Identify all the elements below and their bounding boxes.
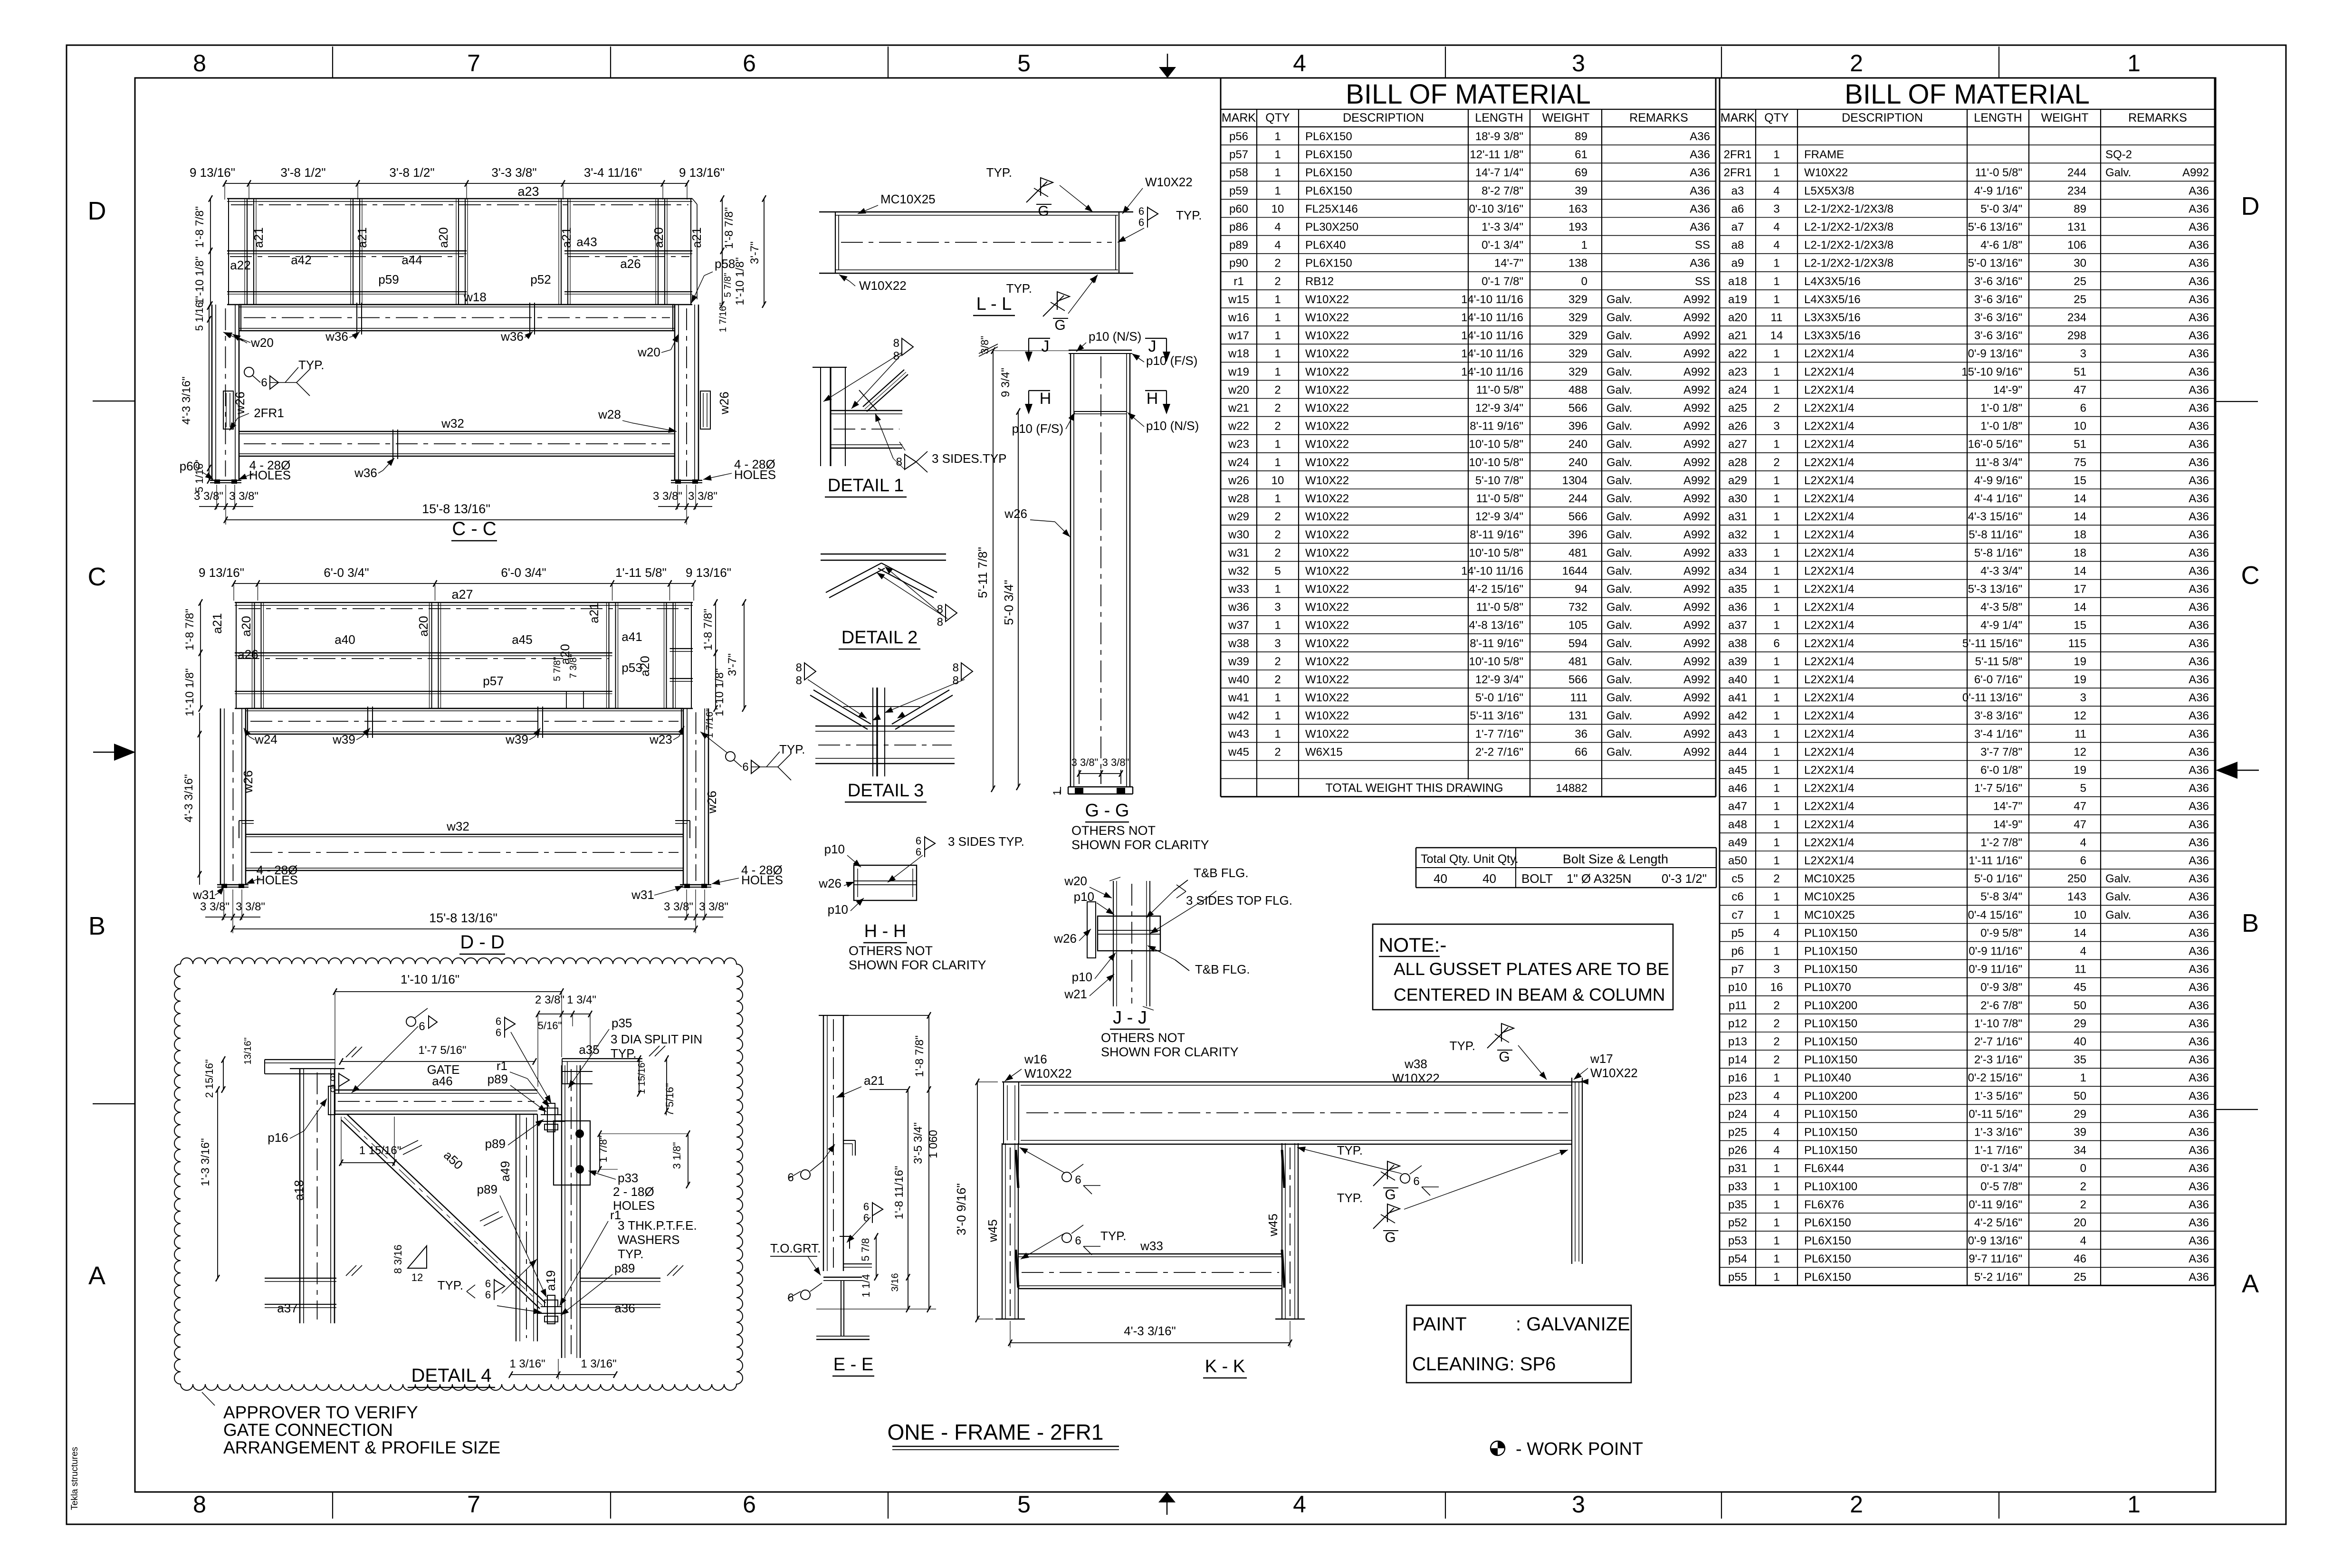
svg-text:6: 6 [330,1071,335,1083]
svg-text:1: 1 [1773,1252,1779,1265]
svg-text:2 - 18Ø: 2 - 18Ø [613,1185,654,1199]
svg-text:TYP.: TYP. [1100,1229,1126,1243]
svg-text:G - G: G - G [1085,801,1129,821]
G-G column body [1070,354,1071,787]
svg-text:Galv.: Galv. [1606,601,1632,614]
svg-text:1: 1 [1274,709,1281,722]
C-C weld symbol typ [244,367,254,377]
svg-text:6: 6 [742,761,748,774]
svg-text:p35: p35 [1728,1198,1747,1211]
svg-text:APPROVER TO VERIFY: APPROVER TO VERIFY [223,1403,418,1422]
svg-text:40: 40 [2074,1035,2086,1048]
svg-text:9'-7 11/16": 9'-7 11/16" [1969,1252,2022,1265]
svg-text:3 3/8": 3 3/8" [194,490,223,503]
svg-text:a30: a30 [1728,492,1747,505]
svg-text:W10X22: W10X22 [1305,311,1349,324]
svg-text:1: 1 [1773,673,1779,686]
svg-text:REMARKS: REMARKS [2128,111,2187,124]
svg-text:w20: w20 [1228,383,1249,396]
svg-text:1 7/16": 1 7/16" [718,303,728,333]
svg-text:A36: A36 [2189,184,2209,197]
svg-text:a33: a33 [1728,546,1747,559]
svg-text:1: 1 [1773,383,1779,396]
svg-text:L2X2X1/4: L2X2X1/4 [1804,546,1854,559]
svg-text:3'-7": 3'-7" [748,241,761,264]
svg-text:L2X2X1/4: L2X2X1/4 [1804,438,1854,451]
svg-text:D: D [2241,192,2260,220]
svg-text:OTHERS NOT: OTHERS NOT [849,944,933,958]
svg-text:H: H [1040,390,1052,408]
svg-text:2 15/16": 2 15/16" [203,1059,215,1098]
svg-text:a21: a21 [864,1073,884,1088]
svg-text:a20: a20 [1728,311,1747,324]
svg-text:p35: p35 [612,1016,632,1030]
svg-text:A992: A992 [1683,727,1710,740]
svg-text:6: 6 [1075,1174,1081,1186]
svg-text:14'-9": 14'-9" [1993,383,2022,396]
svg-text:QTY: QTY [1265,111,1290,124]
svg-text:14: 14 [2074,601,2086,614]
svg-text:p52: p52 [1728,1216,1747,1229]
svg-text:A36: A36 [2189,764,2209,777]
svg-text:12: 12 [2074,709,2086,722]
svg-text:a6: a6 [1731,202,1744,215]
D-D right column [683,708,684,885]
svg-text:a18: a18 [1728,275,1747,288]
svg-text:14: 14 [1770,329,1783,342]
svg-text:W10X22: W10X22 [1590,1066,1638,1080]
svg-text:DESCRIPTION: DESCRIPTION [1842,111,1923,124]
svg-text:3 3/8": 3 3/8" [229,490,258,503]
svg-text:a27: a27 [451,587,473,602]
svg-text:5 7/8: 5 7/8 [860,1238,871,1262]
svg-text:8: 8 [193,50,206,76]
svg-text:J: J [1148,337,1157,355]
svg-text:p5: p5 [1731,927,1744,939]
svg-text:PL10X100: PL10X100 [1804,1180,1857,1193]
svg-text:A36: A36 [2189,1017,2209,1030]
svg-text:TYP.: TYP. [1176,208,1202,222]
svg-text:15'-10 9/16": 15'-10 9/16" [1961,365,2022,378]
svg-text:a41: a41 [621,630,642,644]
svg-text:a19: a19 [544,1270,558,1291]
svg-text:Galv.: Galv. [1606,691,1632,704]
svg-text:D: D [88,197,106,225]
svg-text:p16: p16 [1728,1071,1747,1084]
svg-text:1'-3 3/16": 1'-3 3/16" [199,1138,212,1186]
svg-text:6'-0 3/4": 6'-0 3/4" [324,565,369,580]
svg-text:13/16": 13/16" [243,1037,253,1064]
svg-text:1: 1 [1773,800,1779,813]
svg-text:2: 2 [1274,383,1281,396]
svg-text:A36: A36 [2189,999,2209,1012]
svg-text:1: 1 [1773,836,1779,849]
svg-text:1: 1 [1773,746,1779,758]
detail 1 diagonal brace [863,370,904,407]
svg-text:2 3/8": 2 3/8" [535,994,564,1006]
svg-text:8 3/16: 8 3/16 [392,1244,404,1273]
svg-text:481: 481 [1568,546,1587,559]
svg-text:47: 47 [2074,818,2086,831]
L-L beam body [819,211,1133,213]
svg-text:c5: c5 [1731,872,1743,885]
svg-text:A36: A36 [2189,329,2209,342]
svg-text:30: 30 [2074,257,2086,270]
svg-text:329: 329 [1568,365,1587,378]
svg-text:1'-11 5/8": 1'-11 5/8" [615,565,667,580]
svg-text:5'-11 7/8": 5'-11 7/8" [975,547,990,598]
svg-text:143: 143 [2067,890,2086,903]
svg-text:A992: A992 [1683,746,1710,758]
K-K posts w45 [1002,1143,1003,1319]
svg-text:1'-11 1/16": 1'-11 1/16" [1969,854,2022,867]
svg-text:Galv.: Galv. [1606,293,1632,306]
svg-text:a23: a23 [517,184,539,199]
svg-text:p33: p33 [1728,1180,1747,1193]
svg-text:p33: p33 [618,1171,638,1185]
svg-text:w36: w36 [354,466,377,480]
svg-text:3'-8 3/16": 3'-8 3/16" [1974,709,2022,722]
svg-text:8: 8 [953,674,959,687]
svg-text:11'-0 5/8": 11'-0 5/8" [1975,166,2022,179]
svg-text:L2X2X1/4: L2X2X1/4 [1804,347,1854,360]
svg-text:w36: w36 [500,329,524,344]
svg-text:1: 1 [1773,148,1779,161]
J-J column flanges w20/w21 [1113,881,1114,1006]
svg-text:TOTAL WEIGHT THIS DRAWING: TOTAL WEIGHT THIS DRAWING [1325,782,1503,795]
svg-text:89: 89 [2074,202,2086,215]
svg-text:18: 18 [2074,528,2086,541]
svg-text:4: 4 [1773,1126,1779,1139]
svg-text:HOLES: HOLES [613,1198,655,1213]
svg-text:10: 10 [2074,908,2086,921]
svg-text:1'-3 3/16": 1'-3 3/16" [1974,1126,2022,1139]
svg-text:Galv.: Galv. [1606,583,1632,596]
svg-text:1: 1 [1773,908,1779,921]
svg-text:2: 2 [1773,1035,1779,1048]
svg-text:6: 6 [916,835,921,847]
detail 3 gusset [843,706,920,707]
svg-text:8: 8 [937,616,943,629]
svg-text:W10X22: W10X22 [1305,402,1349,415]
svg-text:5: 5 [1017,50,1031,76]
K-K beam w33 [1018,1253,1282,1254]
svg-text:a49: a49 [1728,836,1747,849]
svg-text:6: 6 [743,50,756,76]
svg-text:p16: p16 [268,1130,288,1145]
svg-text:35: 35 [2074,1053,2086,1066]
svg-text:w36: w36 [325,329,348,344]
svg-text:A36: A36 [2189,1035,2209,1048]
svg-text:w22: w22 [1228,420,1249,433]
svg-text:1 3/16": 1 3/16" [581,1358,616,1370]
svg-text:Tekla structures: Tekla structures [70,1447,80,1510]
svg-text:p89: p89 [614,1261,635,1275]
svg-text:w32: w32 [1228,564,1249,577]
svg-text:5'-0 13/16": 5'-0 13/16" [1968,257,2022,270]
svg-text:BILL OF MATERIAL: BILL OF MATERIAL [1845,79,2090,110]
svg-text:PL6X150: PL6X150 [1305,184,1352,197]
svg-text:G: G [1038,203,1049,219]
svg-text:8: 8 [796,661,802,674]
svg-text:w17: w17 [1590,1052,1613,1066]
svg-text:131: 131 [1568,709,1587,722]
section J-J [1053,862,1292,1059]
svg-text:Galv.: Galv. [1606,438,1632,451]
svg-text:89: 89 [1575,130,1587,143]
svg-text:w23: w23 [649,732,672,746]
svg-text:3 3/8": 3 3/8" [653,490,682,503]
E-E lower clip angle [840,1236,850,1237]
svg-text:A992: A992 [1683,402,1710,415]
section G-G column [975,329,1209,852]
svg-text:6: 6 [916,846,921,858]
svg-text:1 1/4: 1 1/4 [860,1274,872,1298]
svg-text:DETAIL 1: DETAIL 1 [828,476,904,496]
svg-text:7 5/16": 7 5/16" [664,1083,676,1116]
svg-text:A992: A992 [1683,383,1710,396]
svg-text:OTHERS NOT: OTHERS NOT [1101,1031,1185,1045]
svg-text:6: 6 [1138,217,1144,229]
svg-text:8'-2 7/8": 8'-2 7/8" [1482,184,1523,197]
svg-text:w39: w39 [1228,655,1249,668]
svg-text:131: 131 [2067,221,2086,234]
svg-text:19: 19 [2074,673,2086,686]
svg-text:p14: p14 [1728,1053,1747,1066]
svg-text:39: 39 [2074,1126,2086,1139]
svg-text:4'-6 1/8": 4'-6 1/8" [1980,239,2022,252]
svg-text:3: 3 [1572,50,1585,76]
svg-text:4: 4 [1293,50,1306,76]
svg-text:Galv.: Galv. [1606,655,1632,668]
svg-text:6: 6 [496,1015,501,1027]
svg-text:PL6X150: PL6X150 [1804,1271,1851,1283]
svg-text:a21: a21 [1728,329,1747,342]
svg-text:A36: A36 [2189,311,2209,324]
svg-text:1: 1 [1274,583,1281,596]
svg-text:a20: a20 [651,227,666,248]
E-E rail beam [823,1277,862,1278]
svg-text:OTHERS NOT: OTHERS NOT [1071,823,1156,838]
svg-text:0'-9 13/16": 0'-9 13/16" [1968,347,2022,360]
svg-text:FL6X76: FL6X76 [1804,1198,1844,1211]
svg-text:Galv.: Galv. [1606,564,1632,577]
svg-text:a38: a38 [1728,637,1747,650]
svg-text:w20: w20 [1064,874,1087,888]
svg-text:MC10X25: MC10X25 [880,192,936,206]
svg-text:40: 40 [1434,871,1447,886]
svg-text:p24: p24 [1728,1108,1747,1120]
svg-text:a21: a21 [210,613,224,633]
svg-text:a20: a20 [638,656,652,676]
approver note [202,1392,500,1457]
svg-text:0'-11 5/16": 0'-11 5/16" [1969,1108,2022,1120]
svg-text:L - L: L - L [976,294,1012,314]
svg-text:G: G [1385,1230,1396,1245]
svg-text:A992: A992 [1683,637,1710,650]
svg-text:FL25X146: FL25X146 [1305,202,1358,215]
svg-text:L2X2X1/4: L2X2X1/4 [1804,510,1854,523]
svg-text:w38: w38 [1404,1057,1427,1071]
svg-text:14882: 14882 [1556,782,1587,795]
svg-text:p31: p31 [1728,1162,1747,1175]
svg-text:p10: p10 [824,842,845,856]
svg-text:8'-11 9/16": 8'-11 9/16" [1470,420,1523,433]
detail 4 gate rail support angle [265,1059,335,1060]
svg-text:A36: A36 [2189,1108,2209,1120]
svg-text:9 13/16": 9 13/16" [190,165,235,180]
svg-text:1: 1 [1773,709,1779,722]
svg-text:A36: A36 [1690,166,1710,179]
svg-text:3 3/8": 3 3/8" [1102,756,1129,768]
svg-text:w45: w45 [985,1219,1000,1243]
svg-text:p10: p10 [828,902,848,917]
svg-text:K - K: K - K [1205,1357,1245,1377]
svg-text:A36: A36 [2189,818,2209,831]
svg-text:p10: p10 [1072,970,1092,984]
svg-text:4'-2 15/16": 4'-2 15/16" [1469,583,1523,596]
svg-text:9 13/16": 9 13/16" [199,565,244,580]
svg-text:10: 10 [1272,202,1284,215]
svg-text:w26: w26 [705,791,719,814]
detail 4 bottom angle a37 [265,1278,336,1279]
svg-text:p26: p26 [1728,1144,1747,1157]
svg-text:2'-2 7/16": 2'-2 7/16" [1475,746,1523,758]
svg-text:6: 6 [1413,1175,1419,1188]
svg-text:0'-1 3/4": 0'-1 3/4" [1980,1162,2022,1175]
svg-text:3'-3 3/8": 3'-3 3/8" [491,165,536,180]
svg-text:w45: w45 [1266,1214,1280,1237]
svg-text:p57: p57 [483,674,503,688]
svg-text:PL6X40: PL6X40 [1305,239,1346,252]
svg-text:3: 3 [1572,1491,1585,1518]
G-G base plate [1068,786,1133,787]
svg-text:5 1/16": 5 1/16" [193,460,205,493]
svg-text:A36: A36 [2189,239,2209,252]
svg-text:w31: w31 [631,888,654,902]
svg-text:a21: a21 [355,227,369,248]
svg-text:1'-2 7/8": 1'-2 7/8" [1980,836,2022,849]
svg-text:1: 1 [2080,1071,2086,1084]
svg-text:34: 34 [2074,1144,2086,1157]
svg-text:14'-10 11/16: 14'-10 11/16 [1461,329,1523,342]
svg-text:2: 2 [1274,402,1281,415]
svg-text:9 13/16": 9 13/16" [679,165,725,180]
svg-text:5'-8 3/4": 5'-8 3/4" [1980,890,2022,903]
svg-text:A36: A36 [2189,365,2209,378]
svg-text:6'-0 3/4": 6'-0 3/4" [501,565,546,580]
svg-text:A36: A36 [2189,402,2209,415]
D-D base plates [217,884,249,885]
svg-text:a18: a18 [292,1180,306,1200]
svg-text:L2X2X1/4: L2X2X1/4 [1804,746,1854,758]
svg-text:A36: A36 [2189,1053,2209,1066]
svg-text:B: B [88,912,105,940]
svg-text:SQ-2: SQ-2 [2105,148,2132,161]
svg-text:Unit Qty.: Unit Qty. [1473,852,1518,866]
svg-text:1: 1 [1773,818,1779,831]
svg-text:A36: A36 [2189,1090,2209,1102]
svg-text:w21: w21 [1228,402,1249,415]
svg-text:6: 6 [863,1201,869,1213]
svg-text:a7: a7 [1731,221,1744,234]
svg-text:a39: a39 [1728,655,1747,668]
svg-text:4: 4 [2080,945,2086,958]
svg-text:2'-3 1/16": 2'-3 1/16" [1974,1053,2022,1066]
svg-text:PL10X150: PL10X150 [1804,1017,1857,1030]
svg-text:1644: 1644 [1562,564,1587,577]
svg-text:94: 94 [1575,583,1587,596]
svg-text:3: 3 [1274,601,1281,614]
svg-text:A36: A36 [2189,347,2209,360]
svg-text:20: 20 [2074,1216,2086,1229]
svg-text:1 7/16": 1 7/16" [705,708,715,738]
svg-text:2: 2 [1850,50,1863,76]
svg-text:A36: A36 [2189,1162,2209,1175]
L-L left end W10X22 [835,212,836,273]
svg-text:16: 16 [1770,981,1783,994]
svg-text:w15: w15 [1228,293,1249,306]
svg-text:2'-6 7/8": 2'-6 7/8" [1980,999,2022,1012]
svg-text:A992: A992 [1683,601,1710,614]
svg-text:4'-3 3/16": 4'-3 3/16" [180,376,193,424]
svg-text:Galv.: Galv. [1606,492,1632,505]
svg-text:1: 1 [1773,564,1779,577]
svg-text:A36: A36 [2189,293,2209,306]
H-H beam section [854,865,917,900]
detail 4 column a19 [561,1065,562,1358]
svg-text:p54: p54 [1728,1252,1747,1265]
svg-text:66: 66 [1575,746,1587,758]
svg-text:A992: A992 [1683,329,1710,342]
svg-text:p10 (N/S): p10 (N/S) [1089,329,1141,344]
svg-text:A36: A36 [1690,202,1710,215]
E-E column [823,1015,824,1271]
svg-text:4'-3 5/8": 4'-3 5/8" [1980,601,2022,614]
svg-text:A36: A36 [2189,673,2209,686]
svg-text:45: 45 [2074,981,2086,994]
svg-text:PL10X150: PL10X150 [1804,1126,1857,1139]
svg-text:4'-9 1/4": 4'-9 1/4" [1980,619,2022,632]
svg-text:3: 3 [2080,691,2086,704]
svg-text:a37: a37 [1728,619,1747,632]
svg-text:51: 51 [2074,438,2086,451]
svg-text:3 3/8": 3 3/8" [1071,756,1099,768]
svg-text:PL6X150: PL6X150 [1804,1252,1851,1265]
svg-text:L2X2X1/4: L2X2X1/4 [1804,800,1854,813]
svg-text:PL6X150: PL6X150 [1305,257,1352,270]
svg-text:A36: A36 [1690,148,1710,161]
svg-text:W10X22: W10X22 [1305,438,1349,451]
svg-text:4: 4 [1773,1090,1779,1102]
svg-text:0'-11 9/16": 0'-11 9/16" [1969,1198,2022,1211]
svg-text:5 7/8": 5 7/8" [723,273,733,297]
svg-text:a20: a20 [436,227,450,248]
detail 4 slope symbol [408,1246,427,1268]
detail 1 beam [831,410,902,411]
svg-text:5'-8 1/16": 5'-8 1/16" [1974,546,2022,559]
svg-text:2: 2 [1773,1053,1779,1066]
svg-text:1: 1 [1773,764,1779,777]
svg-text:a26: a26 [238,647,258,661]
svg-text:39: 39 [1575,184,1587,197]
svg-text:50: 50 [2074,1090,2086,1102]
svg-text:PL6X150: PL6X150 [1305,166,1352,179]
svg-text:A36: A36 [2189,709,2209,722]
svg-text:3'-8 1/2": 3'-8 1/2" [389,165,434,180]
svg-text:10: 10 [1272,474,1284,487]
detail 3 post [872,688,873,776]
